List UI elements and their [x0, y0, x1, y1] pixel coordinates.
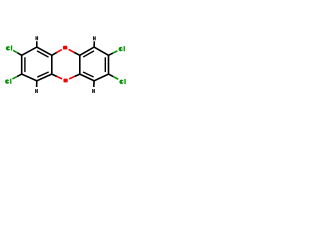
atom O10 top oxygen — [63, 46, 67, 50]
atom Cl on C8 upper-right — [119, 46, 125, 51]
bond C8-Cl upper-right — [109, 53, 113, 55]
bond C1-H — [36, 41, 38, 47]
bond C8-C9 ring B top-right edge — [94, 47, 108, 55]
bond C7=C8 ring B right edge double — [108, 55, 110, 74]
bond C4-H — [36, 81, 38, 87]
bond C6-C7 ring B bottom-right edge — [94, 74, 108, 81]
bond C4a-O5 bottom oxygen left — [52, 74, 57, 76]
bond C2-Cl upper-left — [17, 53, 21, 55]
atom H on C6 — [92, 89, 95, 93]
bond C5a=C6 ring B bottom-left edge double — [80, 74, 94, 81]
bond C9a-O10 top oxygen left — [52, 52, 57, 55]
atom Cl on C2 upper-left — [6, 45, 12, 50]
bond O5-C5a bottom oxygen right — [74, 74, 79, 76]
bond C4a-C9a ring A shared vertical edge — [51, 55, 53, 74]
bond C3-Cl lower-left — [17, 74, 22, 76]
bond C9-H — [93, 41, 95, 47]
atom Cl on C3 lower-left — [5, 79, 11, 84]
atom H on C9 — [93, 36, 96, 40]
atom Cl on C7 lower-right — [119, 79, 125, 84]
bond C9=C9b ring B top-left edge double — [80, 47, 94, 55]
bond C6-H — [93, 81, 95, 87]
bond C4=C4a ring A bottom-right edge double — [37, 74, 52, 81]
bond C3-C4 ring A bottom-left edge — [22, 74, 37, 81]
atom O5 bottom oxygen — [63, 79, 67, 83]
atom H on C4 — [35, 89, 38, 93]
structure diagram TCDD — [0, 0, 130, 130]
bond C9b-C5a ring B shared vertical edge — [79, 55, 81, 74]
bond C1-C2 ring A top-left edge — [22, 47, 37, 55]
atom H on C1 — [36, 36, 39, 40]
bond C7-Cl lower-right — [109, 74, 114, 77]
bond C9a=C1 ring A top-right edge double — [37, 47, 52, 55]
bond C2=C3 ring A left edge double — [21, 55, 23, 74]
bond O10-C9b top oxygen right — [74, 52, 80, 55]
